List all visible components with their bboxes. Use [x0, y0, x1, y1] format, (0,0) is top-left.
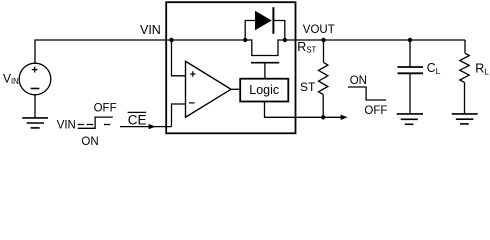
svg-text:ST: ST	[300, 80, 316, 94]
svg-text:VIN: VIN	[140, 23, 161, 37]
svg-text:OFF: OFF	[364, 105, 387, 117]
svg-text:ON: ON	[350, 75, 367, 87]
svg-text:Logic: Logic	[249, 83, 279, 97]
svg-text:CE: CE	[128, 113, 147, 128]
svg-text:OFF: OFF	[94, 103, 117, 115]
svg-text:VIN: VIN	[57, 120, 76, 132]
svg-text:VOUT: VOUT	[303, 24, 335, 36]
svg-text:ON: ON	[81, 136, 98, 148]
